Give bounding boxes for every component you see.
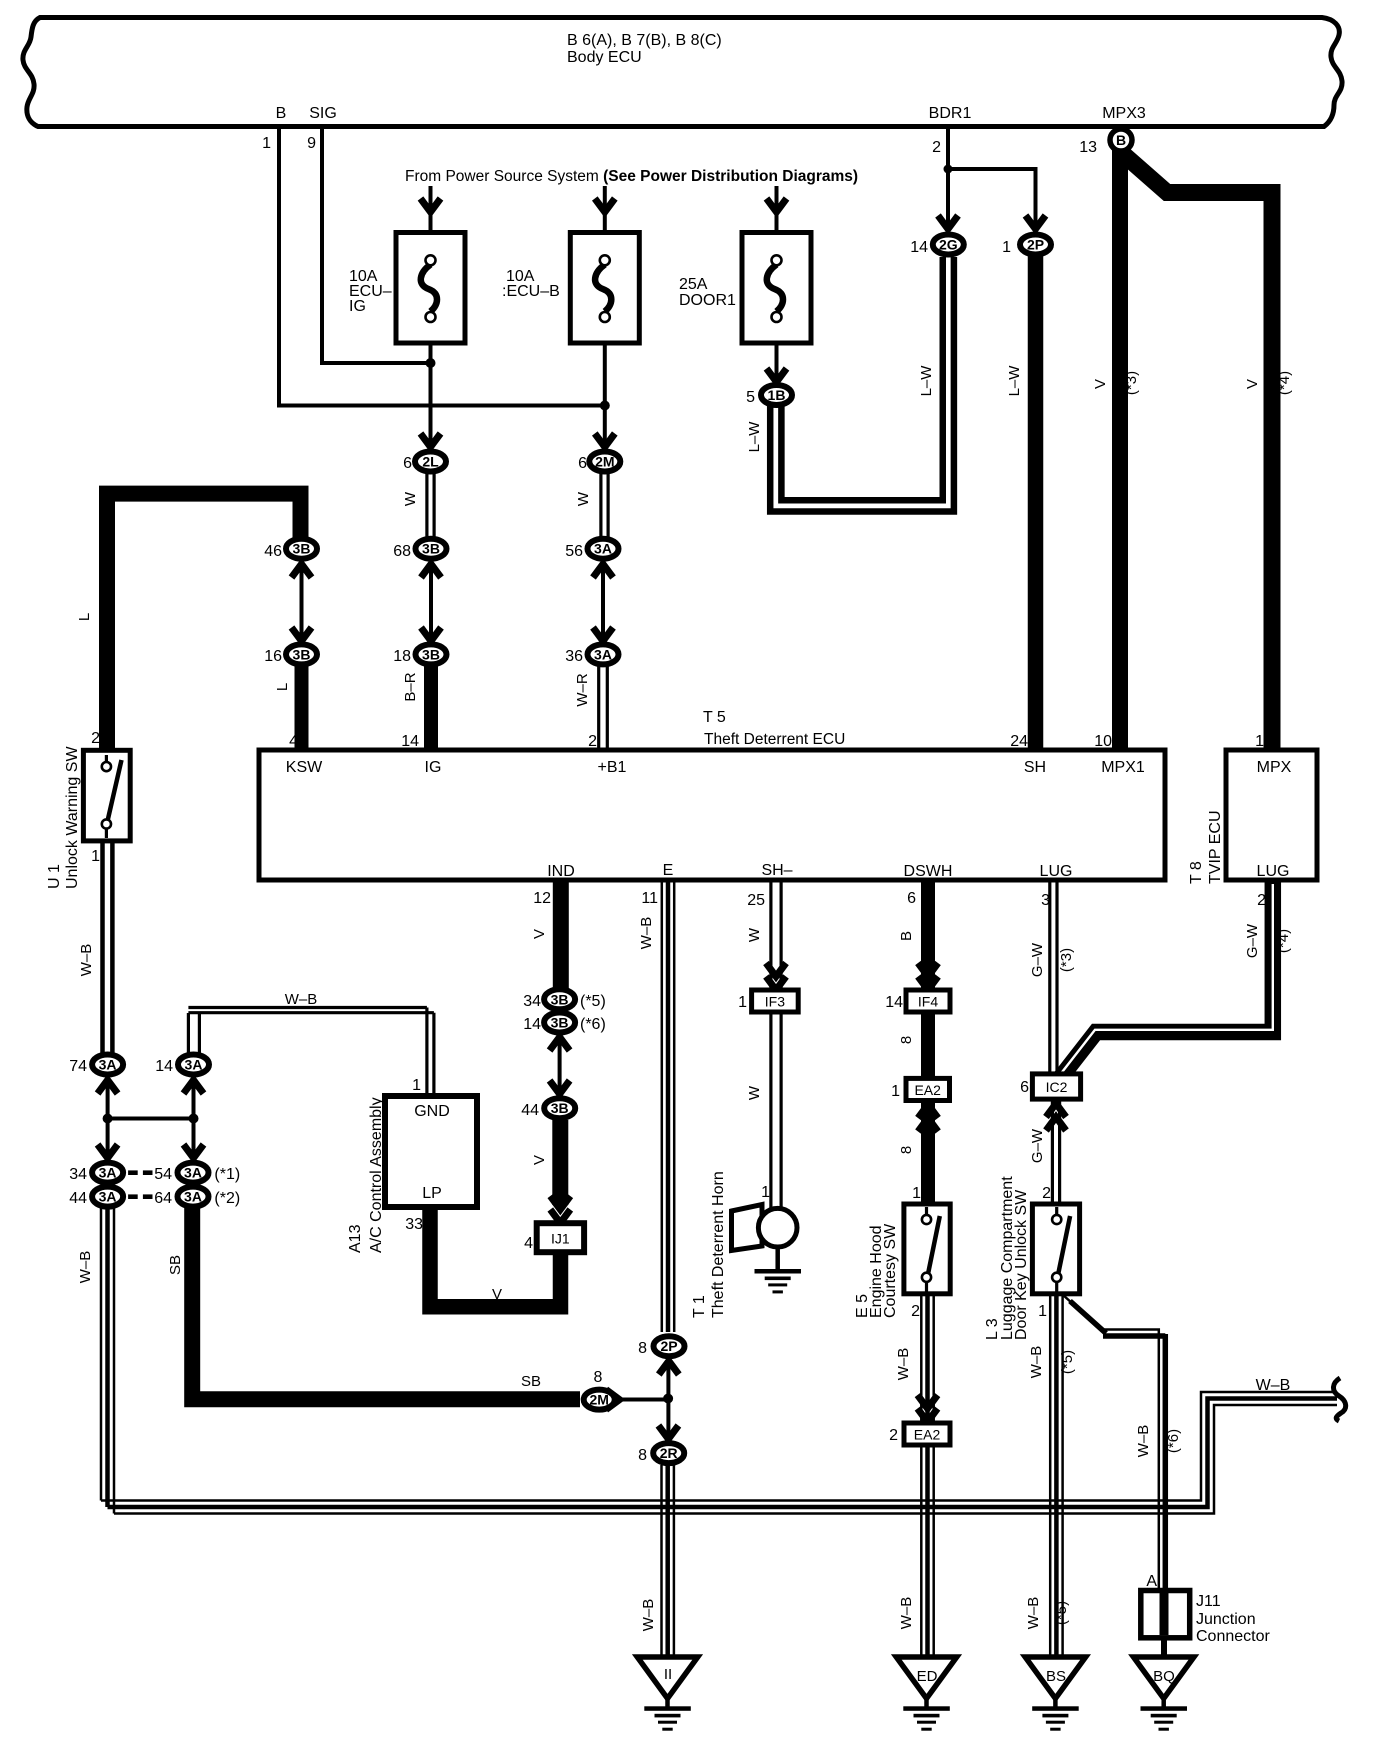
arrows up into IC2 xyxy=(1046,1104,1066,1131)
arrow down into 2R xyxy=(658,1426,678,1440)
svg-text:U 1: U 1 xyxy=(46,864,63,889)
svg-text:LUG: LUG xyxy=(1040,863,1073,880)
svg-text:14: 14 xyxy=(401,733,419,750)
svg-text:KSW: KSW xyxy=(286,759,323,776)
svg-text:2M: 2M xyxy=(589,1392,608,1408)
connector 3B pin 16 xyxy=(264,644,317,665)
svg-text:A: A xyxy=(1146,1573,1157,1590)
wire G-W (*4) T8 LUG to IC2 xyxy=(1060,882,1273,1077)
svg-text:3B: 3B xyxy=(293,541,311,557)
wire J11 to ground BQ xyxy=(1161,1637,1167,1655)
svg-text:MPX: MPX xyxy=(1257,759,1292,776)
harness arrows 3A pair with tie bar xyxy=(98,1080,204,1158)
svg-text:25: 25 xyxy=(747,892,765,909)
wire label G-W (*4) xyxy=(1244,923,1292,958)
harness arrows 3B to 3B (IND) xyxy=(550,1037,570,1094)
svg-text:W: W xyxy=(746,1085,763,1100)
connector EA2 pin 2 xyxy=(889,1423,950,1445)
junction BDR1 xyxy=(944,165,953,174)
svg-text:2: 2 xyxy=(91,730,100,747)
wire label W-B (*6) xyxy=(1135,1425,1182,1458)
svg-text:3A: 3A xyxy=(185,1057,203,1073)
ground under horn xyxy=(755,1245,802,1293)
svg-text:(*6): (*6) xyxy=(1165,1429,1182,1453)
svg-text:(*4): (*4) xyxy=(1275,929,1292,953)
svg-text:4: 4 xyxy=(289,733,298,750)
wire feed to fuse DOOR1 xyxy=(775,186,779,258)
wire W-B (*6) branch L3 to J11 xyxy=(1063,1295,1165,1588)
connector 2P pin 1 xyxy=(1002,235,1051,257)
svg-text:2P: 2P xyxy=(660,1338,677,1354)
svg-text:10: 10 xyxy=(1094,733,1112,750)
svg-text:33: 33 xyxy=(405,1216,423,1233)
svg-text:14: 14 xyxy=(885,994,903,1011)
svg-text:44: 44 xyxy=(521,1102,539,1119)
wire fuse DOOR1 output to 1B xyxy=(775,343,779,383)
svg-text:44: 44 xyxy=(69,1190,87,1207)
svg-text:Door Key Unlock SW: Door Key Unlock SW xyxy=(1013,1189,1030,1340)
svg-text:Theft Deterrent Horn: Theft Deterrent Horn xyxy=(710,1171,727,1318)
svg-text:1: 1 xyxy=(262,135,271,152)
svg-text:B–R: B–R xyxy=(402,672,419,701)
svg-text:SIG: SIG xyxy=(309,105,337,122)
svg-text:14: 14 xyxy=(155,1058,173,1075)
arrow into 1B xyxy=(767,369,787,383)
ground BQ xyxy=(1134,1657,1194,1731)
svg-text:(*4): (*4) xyxy=(1276,371,1293,395)
fuse 10A ECU-IG xyxy=(349,233,465,344)
svg-text:W–B: W–B xyxy=(1256,1377,1291,1394)
wire L 3B to T5 KSW xyxy=(295,666,309,752)
wire W-B EA2 to ground ED xyxy=(921,1445,933,1655)
ground ED xyxy=(896,1657,956,1731)
svg-text:3B: 3B xyxy=(551,991,569,1007)
connector 3B pin 34 (*5) xyxy=(523,989,606,1010)
ground BS xyxy=(1025,1657,1085,1731)
fuse 25A DOOR1 xyxy=(679,233,811,344)
svg-text:SH: SH xyxy=(1024,759,1046,776)
svg-text:13: 13 xyxy=(1079,139,1097,156)
svg-text:DSWH: DSWH xyxy=(904,863,953,880)
svg-text:T 5: T 5 xyxy=(703,709,726,726)
connector 3B pin 68 xyxy=(393,539,446,560)
svg-text:B: B xyxy=(898,931,915,941)
svg-text:3B: 3B xyxy=(422,541,440,557)
wire B pin to ECU-B node xyxy=(279,126,605,406)
svg-text:1: 1 xyxy=(738,994,747,1011)
connector 3A pin 74 xyxy=(69,1055,123,1076)
svg-text:IJ1: IJ1 xyxy=(551,1231,570,1247)
wire B T5 DSWH to IF4 xyxy=(921,878,935,989)
svg-text:Theft Deterrent ECU: Theft Deterrent ECU xyxy=(704,731,845,748)
wire 8 EA2 to E5 xyxy=(921,1100,935,1202)
harness arrows 3A-3A (+B1) xyxy=(593,564,613,641)
arrow into 2G xyxy=(938,216,958,230)
wire label V (*4) xyxy=(1244,371,1293,395)
svg-text:6: 6 xyxy=(1020,1079,1029,1096)
svg-text:W–B: W–B xyxy=(77,1251,94,1284)
wire SB 64-3A to 2M xyxy=(192,1208,580,1399)
svg-text:W–B: W–B xyxy=(78,944,95,977)
svg-text:(*2): (*2) xyxy=(214,1190,240,1207)
svg-text:SB: SB xyxy=(167,1255,184,1275)
svg-text:B 6(A), B 7(B), B 8(C): B 6(A), B 7(B), B 8(C) xyxy=(567,32,722,49)
svg-text:(*5): (*5) xyxy=(580,993,606,1010)
A13 A/C control assembly box xyxy=(347,1096,477,1253)
svg-text:GND: GND xyxy=(414,1103,450,1120)
connector 3A pin 34 xyxy=(69,1163,123,1183)
svg-text:8: 8 xyxy=(594,1369,603,1386)
svg-text:14: 14 xyxy=(910,239,928,256)
wire L unlock SW to 3B xyxy=(107,494,301,754)
wire BDR1 down to junction xyxy=(946,126,950,230)
svg-text:L–W: L–W xyxy=(1006,365,1023,397)
svg-text:3A: 3A xyxy=(594,541,612,557)
connector B (MPX3) xyxy=(1110,129,1132,151)
svg-text:2: 2 xyxy=(1042,1185,1051,1202)
svg-text:MPX3: MPX3 xyxy=(1102,105,1146,122)
svg-text:3B: 3B xyxy=(293,646,311,662)
svg-text:T 8: T 8 xyxy=(1188,861,1205,884)
svg-text:V: V xyxy=(531,1155,548,1165)
wire V (*4) branch MPX3 to T8 MPX xyxy=(1122,153,1272,752)
svg-text:(*5): (*5) xyxy=(1053,1601,1070,1625)
connector 3B pin 14 (*6) xyxy=(523,1013,606,1034)
wire W-B T5 E to 2P xyxy=(662,878,674,1332)
svg-text:W–R: W–R xyxy=(574,673,591,707)
svg-text:8: 8 xyxy=(898,1036,915,1044)
arrow into 2P top xyxy=(1026,216,1046,230)
connector 3A pin 54 (*1) xyxy=(154,1163,240,1183)
svg-text:34: 34 xyxy=(523,993,541,1010)
svg-text:1: 1 xyxy=(912,1185,921,1202)
svg-text:LUG: LUG xyxy=(1257,863,1290,880)
arrows up into EA2 xyxy=(918,1105,938,1132)
svg-text:V: V xyxy=(531,929,548,939)
svg-text:W–B: W–B xyxy=(1025,1597,1042,1630)
connector 3A pin 14 xyxy=(155,1055,209,1076)
tear mark W-B exit xyxy=(1333,1378,1345,1421)
T8 TVIP ECU box xyxy=(1188,750,1317,884)
svg-text:3A: 3A xyxy=(184,1165,202,1181)
svg-text:9: 9 xyxy=(307,135,316,152)
connector IF4 pin 14 xyxy=(885,990,950,1012)
wire W-B (*5) L3 to ground BS xyxy=(1050,1294,1062,1655)
svg-text:2L: 2L xyxy=(422,454,439,470)
svg-text:Courtesy SW: Courtesy SW xyxy=(882,1223,899,1318)
svg-text:W: W xyxy=(746,927,763,942)
svg-text:3B: 3B xyxy=(551,1100,569,1116)
svg-text:V: V xyxy=(492,1286,502,1303)
wire G-W T5 LUG to IC2 xyxy=(1050,878,1057,1072)
svg-text:V: V xyxy=(1092,379,1109,389)
svg-text:Body ECU: Body ECU xyxy=(567,49,642,66)
svg-text:46: 46 xyxy=(264,543,282,560)
svg-text:2: 2 xyxy=(588,733,597,750)
wire V A13 LP to IJ1 xyxy=(430,1207,561,1307)
connector 2L pin 6 xyxy=(403,452,446,473)
svg-text:5: 5 xyxy=(746,389,755,406)
wire fuse ECU-B output to node and 2M xyxy=(603,343,607,448)
wire label W-B (*5) upper xyxy=(1028,1346,1076,1379)
svg-text:W–B: W–B xyxy=(638,917,655,950)
svg-text:Junction: Junction xyxy=(1196,1611,1256,1628)
svg-text:2: 2 xyxy=(911,1303,920,1320)
svg-text:34: 34 xyxy=(69,1166,87,1183)
wire V T5 IND to 3B xyxy=(553,878,569,988)
svg-text:11: 11 xyxy=(641,890,658,907)
svg-text:68: 68 xyxy=(393,543,411,560)
svg-text:BDR1: BDR1 xyxy=(929,105,972,122)
T5 Theft Deterrent ECU box xyxy=(259,709,1165,880)
svg-text:64: 64 xyxy=(154,1190,172,1207)
switch L3 Luggage Compartment Door Key Unlock SW xyxy=(984,1176,1080,1340)
svg-text:8: 8 xyxy=(638,1340,647,1357)
svg-text:T 1: T 1 xyxy=(691,1295,708,1318)
junction dot W-B/SB xyxy=(663,1394,673,1404)
harness arrows 3B-3B (IG) xyxy=(421,564,441,641)
svg-text:56: 56 xyxy=(565,543,583,560)
connector EA2 pin 1 xyxy=(891,1078,949,1100)
svg-text:BQ: BQ xyxy=(1153,1668,1175,1685)
svg-text:25A: 25A xyxy=(679,276,708,293)
connector IC2 pin 6 xyxy=(1020,1074,1081,1099)
svg-text:IG: IG xyxy=(425,759,442,776)
svg-text:Unlock Warning SW: Unlock Warning SW xyxy=(64,746,81,889)
theft deterrent horn T1 xyxy=(691,1171,797,1318)
wire 8 IF4 to EA2 xyxy=(921,1012,935,1078)
svg-text:1: 1 xyxy=(412,1077,421,1094)
svg-text:(*3): (*3) xyxy=(1123,371,1140,395)
wire label V (*3) xyxy=(1092,371,1140,395)
svg-text:1: 1 xyxy=(1002,239,1011,256)
wire W 2M to 3A xyxy=(601,473,608,537)
svg-text:6: 6 xyxy=(907,890,916,907)
wire W-B 14-3A up to A13 GND xyxy=(188,1008,434,1095)
ground II xyxy=(637,1657,697,1731)
dashes 44-64 xyxy=(128,1194,152,1199)
fuse 10A ECU-B xyxy=(502,233,639,344)
svg-text:L: L xyxy=(274,683,291,691)
svg-text:3: 3 xyxy=(1041,892,1050,909)
svg-text:J11: J11 xyxy=(1196,1593,1221,1610)
svg-text:MPX1: MPX1 xyxy=(1101,759,1145,776)
svg-text:14: 14 xyxy=(523,1016,541,1033)
wire V (*3) MPX3 to T5 MPX1 xyxy=(1112,150,1128,752)
svg-text:IF4: IF4 xyxy=(918,994,938,1010)
svg-text:2P: 2P xyxy=(1027,237,1044,253)
connector 3A pin 44 xyxy=(69,1187,123,1207)
svg-text:8: 8 xyxy=(898,1146,915,1154)
svg-text::ECU–B: :ECU–B xyxy=(502,283,560,300)
body ECU band B6/B7/B8 xyxy=(23,18,1342,127)
svg-text:L: L xyxy=(76,613,93,621)
svg-text:36: 36 xyxy=(565,648,583,665)
pin MPX3 of body ECU xyxy=(1079,105,1146,156)
svg-text:6: 6 xyxy=(403,455,412,472)
svg-text:(*1): (*1) xyxy=(214,1166,240,1183)
svg-text:EA2: EA2 xyxy=(914,1427,941,1443)
connector 3A pin 36 xyxy=(565,644,618,665)
svg-text:3A: 3A xyxy=(99,1165,117,1181)
harness arrows 3B-3B (KSW) xyxy=(292,564,312,641)
svg-text:3B: 3B xyxy=(422,646,440,662)
wire W 2L to 3B xyxy=(427,473,434,537)
svg-text:II: II xyxy=(664,1666,672,1683)
wire 2P to 2R through junction xyxy=(666,1362,670,1437)
svg-text:3A: 3A xyxy=(99,1189,117,1205)
wire W-B E5 to EA2 xyxy=(921,1294,933,1422)
svg-text:IC2: IC2 xyxy=(1046,1079,1068,1095)
svg-text:54: 54 xyxy=(154,1166,172,1183)
svg-text:12: 12 xyxy=(533,890,551,907)
connector 2M pin 6 xyxy=(578,452,620,473)
wire label W-B (*5) lower xyxy=(1025,1597,1070,1630)
svg-text:1: 1 xyxy=(1255,733,1264,750)
svg-text:B: B xyxy=(1116,132,1126,148)
wire W IF3 to horn xyxy=(771,1012,781,1208)
junction connector IJ1 pin 4 xyxy=(524,1223,584,1252)
svg-text:2G: 2G xyxy=(939,237,958,253)
connector 2G pin 14 xyxy=(910,235,964,257)
svg-text:W: W xyxy=(402,491,419,506)
svg-text:18: 18 xyxy=(393,648,411,665)
svg-text:IG: IG xyxy=(349,298,366,315)
svg-text:LP: LP xyxy=(422,1185,442,1202)
svg-text:3A: 3A xyxy=(184,1189,202,1205)
svg-text:W–B: W–B xyxy=(285,991,318,1008)
svg-text:1: 1 xyxy=(891,1083,900,1100)
arrows into IF3 xyxy=(766,963,786,990)
connector IF3 pin 1 xyxy=(738,990,798,1012)
wire SIG pin to ECU-IG node xyxy=(322,126,431,363)
svg-text:2M: 2M xyxy=(595,454,614,470)
svg-text:IF3: IF3 xyxy=(765,994,785,1010)
svg-text:W–B: W–B xyxy=(1135,1425,1152,1458)
svg-text:EA2: EA2 xyxy=(914,1082,941,1098)
svg-text:DOOR1: DOOR1 xyxy=(679,292,736,309)
svg-text:3A: 3A xyxy=(594,646,612,662)
junction SIG/ECU-IG xyxy=(426,358,436,368)
arrows into EA2 lower xyxy=(918,1395,938,1422)
svg-text:ED: ED xyxy=(917,1668,938,1685)
arrow into 2M xyxy=(595,434,615,448)
connector 2M pin 8 xyxy=(584,1390,615,1410)
wire L-W 2P to T5 SH xyxy=(1028,255,1044,752)
svg-text:L–W: L–W xyxy=(918,365,935,397)
svg-text:1: 1 xyxy=(91,848,100,865)
pin SIG of body ECU xyxy=(307,105,337,152)
svg-text:V: V xyxy=(1244,379,1261,389)
junction connector J11 xyxy=(1141,1591,1271,1646)
svg-text:W–B: W–B xyxy=(1028,1346,1045,1379)
wire W-B 44-3A down to ground bus xyxy=(101,1208,114,1514)
svg-text:G–W: G–W xyxy=(1029,942,1046,977)
svg-text:2: 2 xyxy=(889,1427,898,1444)
wire BDR1 branch to 2P xyxy=(948,169,1036,230)
svg-text:W–B: W–B xyxy=(898,1597,915,1630)
svg-text:6: 6 xyxy=(578,455,587,472)
wire feed to fuse ECU-B xyxy=(603,186,607,258)
svg-text:2R: 2R xyxy=(660,1445,678,1461)
svg-text:G–W: G–W xyxy=(1029,1128,1046,1163)
svg-text:(*6): (*6) xyxy=(580,1016,606,1033)
wire W-B ground bus bottom xyxy=(101,1392,1337,1514)
svg-text:8: 8 xyxy=(638,1447,647,1464)
connector 3A pin 56 xyxy=(565,539,618,560)
pin B of body ECU xyxy=(262,105,286,152)
connector 3B pin 18 xyxy=(393,644,446,665)
svg-text:W: W xyxy=(575,491,592,506)
svg-text:L–W: L–W xyxy=(746,421,763,453)
dashes 34-54 xyxy=(128,1170,152,1175)
svg-text:BS: BS xyxy=(1046,1668,1066,1685)
wire W-B U1 to 3A xyxy=(103,843,113,1053)
arrow into 2L xyxy=(421,434,441,448)
connector 2R pin 8 xyxy=(638,1443,684,1464)
svg-text:(*5): (*5) xyxy=(1059,1350,1076,1374)
wire label G-W (*3) upper xyxy=(1029,942,1075,977)
arrows into IF4 xyxy=(918,963,938,990)
wire V 3B-44 to IJ1 xyxy=(552,1120,568,1205)
svg-text:1B: 1B xyxy=(768,387,786,403)
svg-text:W–B: W–B xyxy=(895,1348,912,1381)
wire W T5 SH- to IF3 xyxy=(771,878,781,988)
svg-text:From Power Source System (See: From Power Source System (See Power Dist… xyxy=(405,168,858,185)
svg-text:3A: 3A xyxy=(99,1057,117,1073)
svg-text:16: 16 xyxy=(264,648,282,665)
svg-text:4: 4 xyxy=(524,1235,533,1252)
wire G-W IC2 to L3 xyxy=(1052,1099,1059,1202)
wire feed to fuse ECU-IG xyxy=(429,186,433,258)
wire W-R 3A to T5 +B1 xyxy=(599,666,608,752)
connector 1B pin 5 xyxy=(746,385,792,406)
arrow into fuse ECU-B xyxy=(595,199,615,213)
svg-text:SB: SB xyxy=(521,1373,541,1390)
svg-text:IND: IND xyxy=(547,863,575,880)
svg-text:24: 24 xyxy=(1010,733,1028,750)
svg-text:+B1: +B1 xyxy=(598,759,627,776)
pin BDR1 of body ECU xyxy=(929,105,972,156)
arrow up into 2P xyxy=(659,1361,679,1375)
svg-text:W–B: W–B xyxy=(640,1599,657,1632)
arrow into fuse ECU-IG xyxy=(421,199,441,213)
svg-text:1: 1 xyxy=(761,1184,770,1201)
switch U1 Unlock Warning SW xyxy=(46,730,130,889)
wire W-B 2R to ground II xyxy=(662,1465,674,1655)
svg-text:(*3): (*3) xyxy=(1058,948,1075,972)
svg-text:TVIP ECU: TVIP ECU xyxy=(1207,811,1224,885)
junction B/ECU-B xyxy=(600,401,610,411)
wire L-W loop 1B to 2G xyxy=(770,257,954,512)
connector 3A pin 64 (*2) xyxy=(154,1187,240,1207)
svg-text:1: 1 xyxy=(1038,1303,1047,1320)
wire B-R 3B to T5 IG xyxy=(424,666,438,752)
svg-text:G–W: G–W xyxy=(1244,923,1261,958)
svg-text:E: E xyxy=(663,862,674,879)
svg-text:3B: 3B xyxy=(551,1015,569,1031)
svg-text:2: 2 xyxy=(932,139,941,156)
svg-text:A13: A13 xyxy=(347,1224,364,1253)
wire fuse ECU-IG output to node and 2L xyxy=(429,343,433,448)
connector 3B pin 46 xyxy=(264,539,317,560)
svg-text:B: B xyxy=(276,105,287,122)
connector 3B pin 44 xyxy=(521,1098,575,1119)
switch E5 Engine Hood Courtesy SW xyxy=(854,1204,950,1318)
svg-text:Connector: Connector xyxy=(1196,1628,1270,1645)
svg-text:A/C Control Assembly: A/C Control Assembly xyxy=(368,1097,385,1253)
arrows into IJ1 xyxy=(550,1196,570,1223)
